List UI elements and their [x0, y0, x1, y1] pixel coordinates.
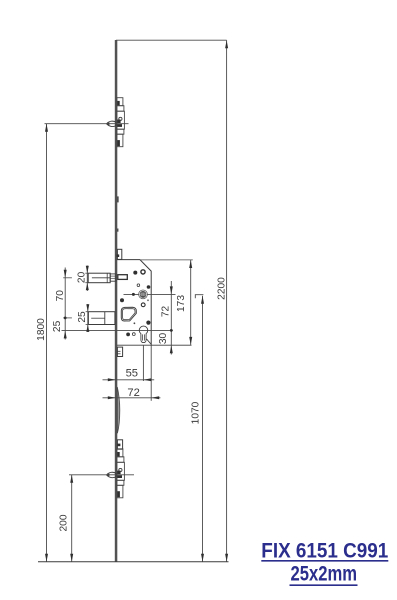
guide bracket above lock case: [117, 249, 121, 259]
svg-text:20: 20: [76, 271, 87, 283]
tiny hole H: [134, 322, 136, 324]
screw hole D: [147, 285, 151, 289]
svg-text:1070: 1070: [191, 401, 202, 424]
follower centerline: [124, 293, 176, 295]
svg-text:70: 70: [55, 290, 66, 302]
bolt inner divider: [106, 273, 108, 283]
svg-text:173: 173: [176, 295, 187, 312]
svg-text:25: 25: [52, 320, 63, 332]
bushing G: [141, 303, 145, 307]
svg-text:72: 72: [160, 306, 171, 318]
svg-text:200: 200: [58, 514, 69, 531]
25 bottom arrow pointing up: [64, 330, 67, 338]
rod divider: [104, 312, 106, 325]
diagonal strut: [147, 339, 151, 344]
rod body: [88, 312, 115, 325]
cylinder extension line down: [142, 345, 144, 381]
screw hole I: [146, 321, 150, 325]
svg-text:25: 25: [77, 311, 88, 323]
30 bottom arrow (outside, pointing up): [170, 345, 173, 353]
rod extension stubs: [86, 311, 89, 313]
stub at rod mid: [63, 317, 72, 319]
rivet nub lower: [117, 229, 118, 232]
bottom latch centerline: [69, 474, 134, 476]
bushing B: [141, 270, 145, 274]
top extension line: [116, 39, 227, 41]
lock case bottom edge + extension: [117, 344, 192, 346]
pin on follower centerline: [132, 293, 135, 296]
wire rail: [115, 40, 118, 562]
svg-text:55: 55: [126, 368, 138, 380]
small hole K: [132, 333, 135, 336]
guide bracket below lock case: [117, 347, 122, 356]
small hole C: [137, 284, 140, 287]
70/25 shared junction dot at rod mid: [64, 317, 67, 320]
euro cylinder hole: [139, 326, 148, 343]
case top extension line: [140, 259, 193, 261]
reference stub: [195, 295, 203, 299]
svg-text:1800: 1800: [36, 318, 47, 341]
bolt protruding head: [118, 275, 128, 280]
svg-text:25x2mm: 25x2mm: [291, 563, 358, 586]
cylinder centerline: [62, 329, 173, 331]
70 top arrow pointing down: [64, 270, 67, 278]
bolt body: [88, 273, 110, 283]
svg-text:FIX 6151 C991: FIX 6151 C991: [261, 539, 388, 562]
rivet nub upper: [117, 196, 118, 202]
svg-text:30: 30: [158, 333, 169, 345]
bolt neck through faceplate: [110, 274, 116, 281]
bolt top/bottom extension stubs: [85, 272, 88, 274]
screw hole A: [133, 271, 137, 275]
connecting rod lens: [117, 387, 120, 433]
bolt mid line: [92, 277, 110, 279]
screw hole J: [126, 333, 130, 337]
dim line 2200: [226, 40, 228, 562]
deadbolt nut pentagon: [121, 307, 136, 321]
72/30 shared junction dot at cylinder line: [170, 329, 173, 332]
guide bracket above bottom latch: [117, 440, 122, 449]
case edge extension line down: [150, 345, 152, 401]
lock case outline: [117, 260, 151, 346]
svg-text:2200: 2200: [216, 277, 227, 300]
screw hole E: [120, 298, 124, 302]
tiny hole F: [147, 299, 149, 301]
72 top arrow (outside, pointing down): [170, 286, 173, 294]
follower hub U1: [139, 290, 148, 299]
rod mid line: [91, 317, 105, 319]
svg-text:72: 72: [127, 387, 139, 399]
top latch centerline: [45, 123, 129, 125]
stub at bolt mid: [63, 277, 72, 279]
